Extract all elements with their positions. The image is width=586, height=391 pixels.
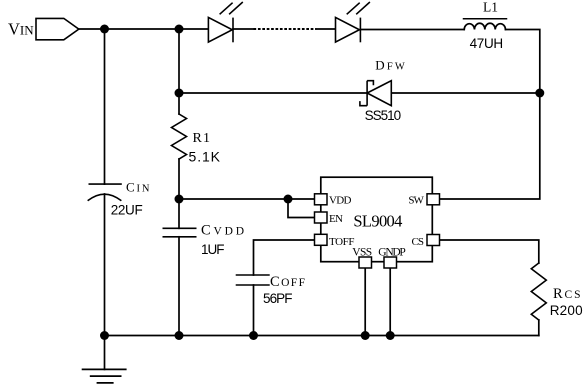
svg-text:CIN: CIN bbox=[126, 179, 150, 194]
svg-text:SW: SW bbox=[408, 194, 424, 206]
svg-text:VSS: VSS bbox=[352, 247, 372, 259]
svg-text:CS: CS bbox=[412, 236, 425, 248]
svg-text:47UH: 47UH bbox=[470, 36, 504, 51]
svg-text:L1: L1 bbox=[483, 0, 498, 14]
svg-text:22UF: 22UF bbox=[111, 202, 143, 217]
svg-text:TOFF: TOFF bbox=[329, 236, 355, 248]
svg-text:VIN: VIN bbox=[8, 20, 34, 39]
svg-text:VDD: VDD bbox=[329, 194, 352, 206]
svg-text:5.1K: 5.1K bbox=[189, 149, 221, 165]
svg-text:RCS: RCS bbox=[553, 286, 581, 302]
svg-text:DFW: DFW bbox=[375, 57, 405, 72]
svg-text:EN: EN bbox=[329, 213, 343, 225]
svg-text:R200: R200 bbox=[550, 303, 583, 318]
svg-text:CVDD: CVDD bbox=[201, 223, 244, 239]
svg-text:SS510: SS510 bbox=[365, 108, 402, 123]
svg-text:GNDP: GNDP bbox=[378, 247, 406, 259]
svg-text:COFF: COFF bbox=[270, 274, 305, 290]
svg-text:SL9004: SL9004 bbox=[353, 211, 402, 230]
svg-text:56PF: 56PF bbox=[263, 291, 293, 306]
svg-text:R1: R1 bbox=[193, 131, 211, 146]
svg-text:1UF: 1UF bbox=[201, 242, 225, 257]
